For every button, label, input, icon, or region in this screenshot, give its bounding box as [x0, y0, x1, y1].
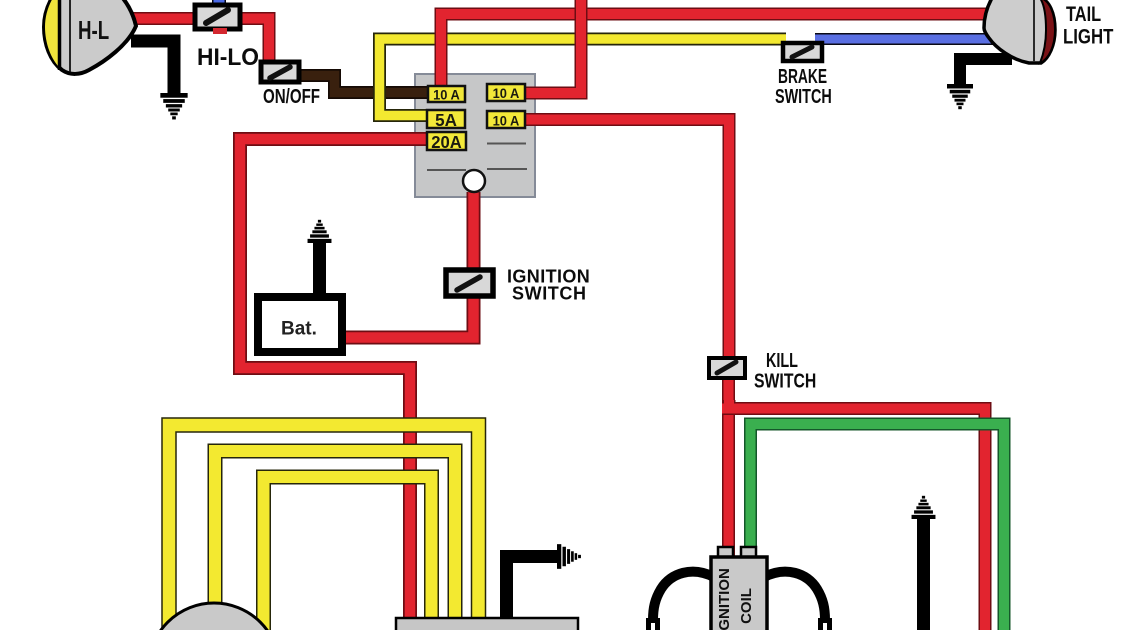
wire brown ON/OFF to fuse box	[300, 76, 428, 93]
tail light	[984, 0, 1055, 63]
headlight	[44, 0, 136, 74]
svg-text:SWITCH: SWITCH	[775, 85, 832, 108]
fuse F2 5A	[427, 110, 465, 128]
wire red second 10A fuse to kill switch	[523, 120, 729, 361]
svg-text:Bat.: Bat.	[281, 319, 317, 340]
svg-text:SWITCH: SWITCH	[512, 284, 587, 304]
wire red left 10A fuse up and across top to tail light	[441, 14, 1002, 88]
svg-text:SWITCH: SWITCH	[754, 370, 816, 392]
svg-text:10 A: 10 A	[493, 113, 520, 129]
wire red fusebox circle through ignition switch to battery	[343, 192, 474, 338]
fuse F1 10A (headlight)	[428, 86, 465, 102]
wire green ignition coil loop to bottom right	[751, 424, 1005, 630]
svg-text:TAIL: TAIL	[1066, 2, 1101, 25]
wire yellow 5A-fuse loop + long run to brake switch	[380, 39, 787, 116]
svg-text:IGNITION: IGNITION	[716, 568, 733, 630]
ground regulator	[557, 544, 581, 569]
ground tail light	[947, 84, 973, 109]
empty fuse slot dashes	[427, 144, 527, 171]
wire blue brake switch to tail light	[815, 33, 1005, 45]
fuse box	[415, 74, 535, 197]
wire red headlight to HI-LO switch	[130, 12, 200, 25]
wire black spark plug cable left	[646, 572, 714, 630]
wire yellow arch 3 (innermost)	[264, 477, 432, 630]
ground battery	[308, 220, 332, 243]
wire red right 10A fuse to top edge	[523, 0, 581, 93]
svg-text:20A: 20A	[431, 133, 461, 152]
svg-text:5A: 5A	[435, 110, 457, 131]
wire black tail light ground	[960, 59, 1012, 86]
brake switch	[783, 43, 822, 61]
fuse box grommet (white circle)	[463, 170, 485, 192]
fuse F3 20A (main)	[427, 132, 466, 150]
svg-text:H-L: H-L	[78, 15, 109, 45]
wire black regulator ground	[507, 557, 558, 621]
wire red from 20A fuse to regulator (left long run)	[240, 139, 427, 620]
fuse F4 10A (tail light)	[487, 84, 525, 101]
wire black coil-side ground	[917, 518, 930, 630]
small red nub below HI-LO switch	[213, 28, 227, 34]
ignition switch	[446, 270, 493, 296]
svg-text:COIL: COIL	[738, 588, 755, 624]
ignition coil	[711, 547, 767, 630]
wire blue stub above HI-LO switch	[212, 0, 226, 8]
kill switch	[709, 358, 745, 378]
svg-text:10 A: 10 A	[433, 87, 460, 103]
wire red kill switch branch to bottom right	[722, 400, 985, 630]
svg-text:KILL: KILL	[766, 349, 798, 372]
svg-text:ON/OFF: ON/OFF	[263, 85, 320, 108]
alternator dome	[149, 603, 280, 630]
ground coil area	[912, 496, 936, 519]
fuse F5 10A (ignition)	[487, 111, 525, 128]
ground headlight	[160, 93, 187, 119]
svg-text:10 A: 10 A	[493, 86, 520, 102]
HI-LO switch	[195, 5, 240, 29]
wire black headlight ground	[131, 41, 174, 95]
svg-text:LIGHT: LIGHT	[1063, 26, 1114, 49]
svg-text:HI-LO: HI-LO	[197, 43, 259, 70]
wire red HI-LO to ON/OFF	[240, 19, 269, 63]
ON/OFF switch	[261, 62, 299, 82]
battery	[258, 297, 342, 352]
wire black battery ground	[313, 242, 326, 296]
regulator box	[396, 618, 578, 630]
wire black spark plug cable right	[764, 572, 832, 630]
wire yellow arch 1 (outermost, alternator to regulator)	[169, 425, 479, 630]
wire red kill switch down to ignition coil	[722, 378, 735, 556]
wire yellow arch 2	[215, 451, 455, 619]
